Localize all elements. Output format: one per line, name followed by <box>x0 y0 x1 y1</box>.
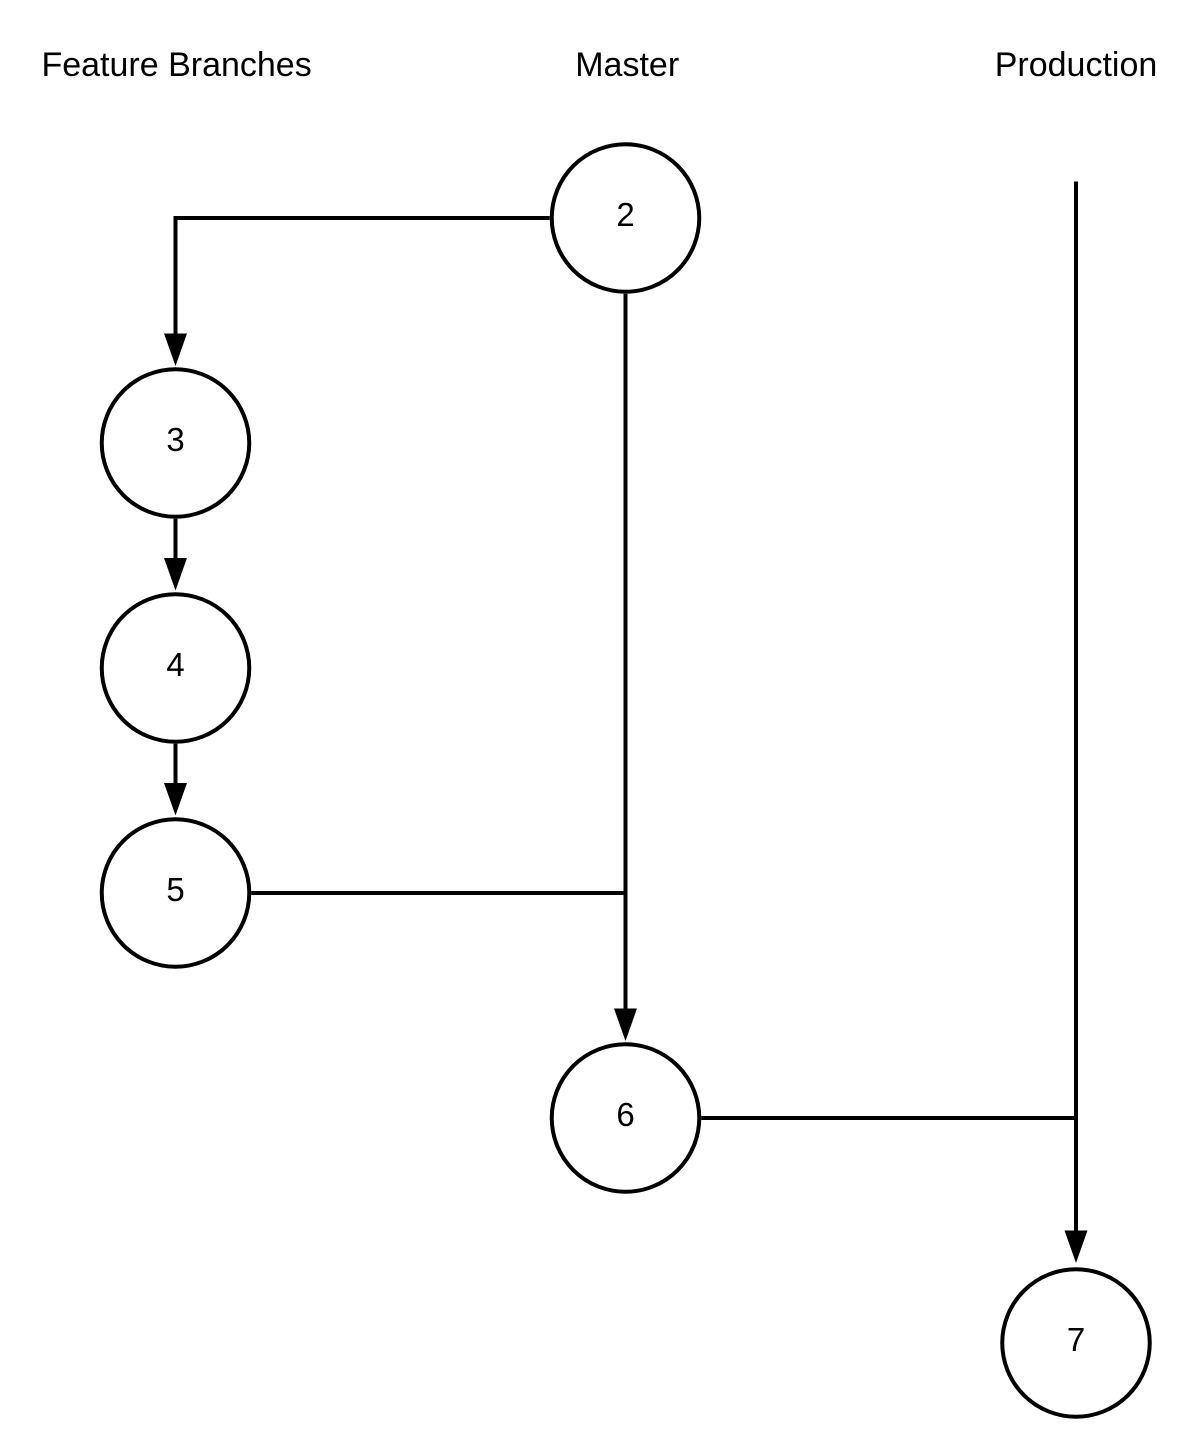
wire: production line top down to node 7 <box>1074 182 1078 1233</box>
svg-text:Production: Production <box>995 46 1158 84</box>
svg-text:6: 6 <box>616 1096 634 1133</box>
node 4 <box>102 594 250 742</box>
arrowhead: into node 5 top <box>164 783 187 816</box>
arrowhead: into node 7 top <box>1065 1231 1088 1264</box>
svg-text:Feature Branches: Feature Branches <box>41 46 311 84</box>
svg-text:5: 5 <box>166 871 184 908</box>
svg-text:4: 4 <box>166 646 184 683</box>
wire: node 3 bottom to node 4 <box>174 519 178 560</box>
node 7 <box>1002 1269 1150 1417</box>
wire: node 2 left to feature branch corner then down <box>176 218 550 335</box>
node 5 <box>102 819 250 967</box>
svg-text:7: 7 <box>1067 1321 1085 1358</box>
wire: node 6 right to production line junction <box>701 1116 1078 1120</box>
node 2 <box>552 144 700 292</box>
node 3 <box>102 369 250 517</box>
arrowhead: into node 4 top <box>164 558 187 591</box>
wire: node 4 bottom to node 5 <box>174 744 178 785</box>
wire: node 2 bottom down master line to node 6 <box>624 294 628 1010</box>
arrowhead: into node 6 top <box>614 1009 637 1042</box>
wire: node 5 right to master line junction <box>251 891 627 895</box>
svg-text:Master: Master <box>575 46 679 84</box>
arrowhead: into node 3 top <box>164 334 187 367</box>
node 6 <box>552 1044 700 1192</box>
svg-text:2: 2 <box>616 196 634 233</box>
svg-text:3: 3 <box>166 421 184 458</box>
